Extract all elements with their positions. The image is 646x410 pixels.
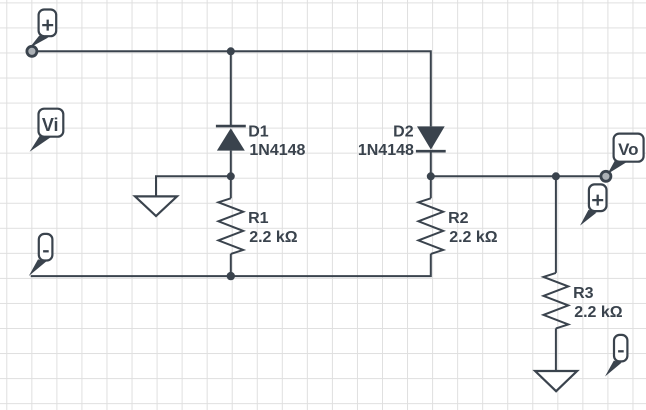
svg-text:1N4148: 1N4148 xyxy=(249,142,305,159)
label bubble + (top left) tail xyxy=(30,36,49,48)
label bubble Vo xyxy=(614,134,644,162)
wire top rail from + terminal to D2 xyxy=(32,51,431,126)
resistor R2 xyxy=(418,198,443,254)
wire D1 top stub xyxy=(230,51,232,126)
diode D2 arrow xyxy=(417,126,445,149)
svg-text:2.2 kΩ: 2.2 kΩ xyxy=(449,229,498,246)
svg-text:D1: D1 xyxy=(248,124,269,141)
node junction dot R3 branch xyxy=(552,172,560,180)
diode D1 arrow xyxy=(217,128,245,150)
svg-text:Vi: Vi xyxy=(42,115,59,135)
label bubble - (bottom right) xyxy=(614,335,627,362)
svg-text:2.2 kΩ: 2.2 kΩ xyxy=(249,229,298,246)
wire bottom rail xyxy=(31,254,431,276)
label bubble Vi xyxy=(39,109,64,137)
label bubble + (top left) xyxy=(39,10,57,37)
wire gnd branch left xyxy=(156,176,231,196)
svg-text:R3: R3 xyxy=(573,285,594,302)
terminal Vo (output) xyxy=(601,171,611,181)
diode D2 cathode bar xyxy=(416,150,446,153)
wire R3 to ground xyxy=(555,328,557,371)
resistor R1 xyxy=(218,198,243,254)
label bubble - (bottom left) tail xyxy=(29,259,47,276)
svg-text:2.2 kΩ: 2.2 kΩ xyxy=(574,304,623,321)
label bubble Vi tail xyxy=(30,136,51,152)
minus sign bottom left xyxy=(43,250,49,252)
ground symbol (right) xyxy=(535,371,577,391)
label bubble + (right) xyxy=(589,184,607,211)
label bubble + (right) tail xyxy=(580,210,597,226)
wire D1 to mid node xyxy=(230,151,232,199)
wire mid node to Vo xyxy=(431,175,606,177)
node junction dot D1-gnd xyxy=(227,172,235,180)
minus sign bottom right xyxy=(618,350,624,352)
node junction dot bottom xyxy=(227,272,235,280)
svg-text:R2: R2 xyxy=(448,210,469,227)
label bubble - (bottom left) xyxy=(39,234,53,261)
diode D1 cathode bar xyxy=(216,125,246,128)
label bubble Vo tail xyxy=(608,161,627,174)
wire D2 to mid node xyxy=(430,151,432,198)
node junction dot D2-Vo xyxy=(427,172,435,180)
label bubble - (bottom right) tail xyxy=(605,361,622,377)
wire R3 branch down xyxy=(555,176,557,273)
plus sign right xyxy=(592,195,603,206)
svg-text:1N4148: 1N4148 xyxy=(358,142,414,159)
node junction dot top xyxy=(227,47,235,55)
resistor R3 xyxy=(544,273,569,329)
terminal + (input) xyxy=(27,46,37,56)
wire R1 bottom stub xyxy=(230,254,232,276)
svg-text:R1: R1 xyxy=(248,210,269,227)
ground symbol (left) xyxy=(135,196,177,216)
svg-text:D2: D2 xyxy=(393,124,414,141)
plus sign top left xyxy=(42,20,53,31)
svg-text:Vo: Vo xyxy=(618,140,638,159)
